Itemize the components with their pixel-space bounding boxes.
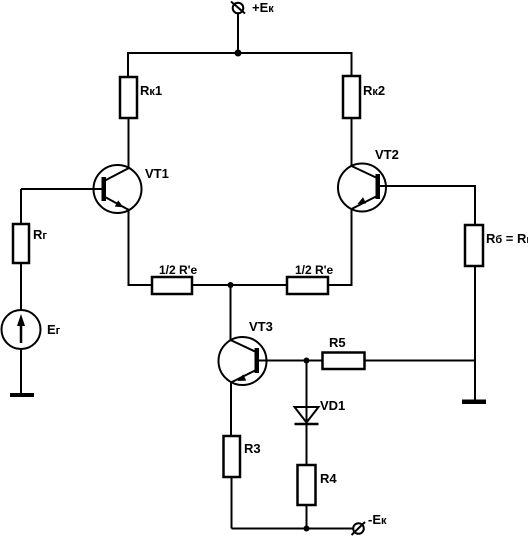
diode VD1 [295,407,319,424]
resistor R4 [298,465,316,505]
wire R5 to right rail [365,360,476,362]
wire VT1 emitter down [129,210,153,285]
wire Rg to Eg [20,263,22,310]
terminal +Ek [231,2,245,14]
svg-text:VT2: VT2 [375,147,399,162]
wire VD1 to R4 [306,424,308,465]
wire Rg top [20,189,22,224]
svg-text:-Eк: -Eк [368,512,387,527]
wire VT2 base to R6 [380,186,476,225]
resistor 1/2 R'e left [152,277,192,294]
node VD1 tap [304,358,310,364]
svg-text:Rк2: Rк2 [363,83,385,98]
resistor 1/2 R'e right [287,277,328,294]
svg-text:VD1: VD1 [320,398,345,413]
resistor R3 [224,436,241,477]
resistor Rk1 [120,77,137,118]
wire VT3 emitter to R3 [230,382,232,436]
wire R3 to bottom rail [231,477,233,529]
source Eg [2,310,41,349]
resistor Rg [13,224,29,263]
node emitter junction [228,282,234,288]
svg-text:+Eк: +Eк [252,0,274,15]
terminal -Ek [352,522,366,535]
resistor R5 [323,353,365,370]
svg-text:Rг: Rг [33,227,47,242]
node top rail junction [235,50,242,57]
svg-text:VT3: VT3 [249,319,273,334]
svg-text:Eг: Eг [47,322,61,337]
wire between emitter resistors [192,284,287,286]
resistor Rk2 [343,76,360,118]
wire VD1 anode [306,361,308,425]
wire +Ek to top rail [237,14,239,54]
ground right [462,400,486,405]
node bottom junction [304,526,310,532]
resistor R6 [465,225,483,266]
wire top rail [128,53,352,77]
wire bottom rail [232,528,354,530]
wire Eg to ground [20,349,22,394]
svg-text:Rб = Rг: Rб = Rг [486,231,528,246]
wire VT3 collector [230,285,232,341]
wire VT3 base to R5 [259,360,323,362]
wire R6 to ground right [474,266,476,400]
ground left [10,393,34,397]
wire VT1 base [21,188,102,190]
svg-text:R4: R4 [320,471,337,486]
transistor VT1 [94,165,142,213]
wire Rk2 to VT2 collector [351,118,353,166]
transistor VT3 [219,337,267,385]
wire right R'e to VT2 emitter [328,209,352,285]
svg-text:R3: R3 [244,441,261,456]
svg-text:R5: R5 [329,335,346,350]
svg-text:VT1: VT1 [145,166,169,181]
svg-text:Rк1: Rк1 [140,83,162,98]
svg-text:1/2 R'e: 1/2 R'e [159,263,198,277]
transistor VT2 [338,164,386,212]
wire Rk1 to VT1 collector [128,118,130,168]
svg-text:1/2 R'e: 1/2 R'e [295,263,334,277]
wire R4 to bottom rail [306,505,308,529]
